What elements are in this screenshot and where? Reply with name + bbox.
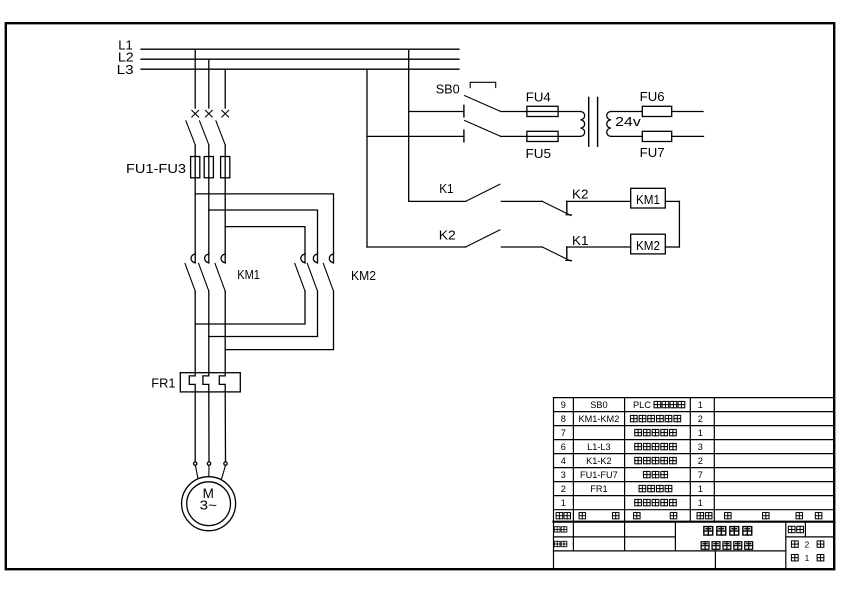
label shenhe (checked by) (554, 541, 566, 546)
transformer T primary winding (581, 112, 585, 137)
pushbutton SB0 contact 2 (367, 121, 527, 142)
parts row 8 texts (561, 414, 703, 424)
svg-text:FU7: FU7 (640, 145, 665, 160)
label K1 row1 (439, 182, 453, 196)
contactor KM2 pole 2 (307, 253, 317, 291)
svg-text:1: 1 (805, 553, 810, 563)
parts row 3 texts (561, 484, 703, 494)
parts row 9 texts (561, 400, 703, 410)
svg-text:L1-L3: L1-L3 (587, 442, 611, 452)
svg-text:9: 9 (561, 400, 566, 410)
parts row 4 texts (561, 470, 703, 480)
label K2 row2 (439, 229, 456, 243)
motor M inner circle (187, 482, 231, 526)
wire KM1 pole outputs (195, 291, 225, 373)
svg-text:2: 2 (561, 484, 566, 494)
svg-text:2: 2 (698, 456, 703, 466)
label zhitu (drafted by) (554, 527, 566, 532)
label L3 (117, 62, 134, 77)
bus L2 (141, 58, 459, 60)
label 3~ (200, 498, 218, 513)
fuse FU4 (527, 106, 581, 116)
title text line 2 (electrical schematic) (701, 542, 752, 550)
contactor coil KM1 (631, 188, 666, 208)
label FU6 (640, 89, 665, 104)
contactor KM2 pole 3 (323, 253, 333, 291)
svg-text:FU1-FU3: FU1-FU3 (126, 161, 186, 176)
label FU1-FU3 (126, 161, 186, 176)
wire KM2 output 2 (209, 291, 318, 337)
fuse FU5 (527, 131, 581, 141)
FR1 heater element 2 (203, 373, 209, 392)
fuse FU7 (611, 131, 704, 141)
wire control feed from L3 (366, 69, 368, 247)
label SB0 (436, 81, 460, 96)
motor M outer circle (182, 477, 236, 531)
svg-text:K2: K2 (439, 229, 456, 243)
wire control feed from L1 (408, 49, 410, 201)
switch QS pole 2 (200, 110, 213, 156)
svg-text:L3: L3 (117, 62, 134, 77)
svg-text:FU5: FU5 (526, 146, 552, 161)
label FR1 (151, 376, 175, 391)
wire L3 drop (224, 69, 226, 108)
contactor coil KM2 (631, 234, 666, 254)
label L1 (118, 38, 133, 53)
svg-text:K1: K1 (572, 234, 588, 248)
fuse FU2 (204, 157, 213, 178)
fuse FU6 (611, 106, 703, 116)
svg-text:FU6: FU6 (640, 89, 665, 104)
relay contact K1 NO (409, 184, 500, 201)
svg-text:K1-K2: K1-K2 (586, 456, 612, 466)
table header texts (556, 513, 822, 519)
svg-text:2: 2 (805, 540, 810, 550)
svg-text:FU4: FU4 (526, 90, 551, 105)
contactor KM1 pole 3 (215, 253, 225, 291)
svg-text:K2: K2 (572, 188, 588, 202)
title area cell lines (554, 522, 835, 569)
relay contact K2 NO (367, 230, 500, 247)
contactor KM1 pole 1 (185, 253, 195, 291)
svg-text:3~: 3~ (200, 498, 218, 513)
label K1 row2 (572, 234, 588, 248)
relay contact K1 NC (542, 247, 630, 261)
wire branch L2 to KM2 (209, 210, 318, 253)
svg-text:K1: K1 (439, 182, 453, 196)
wire phase A to KM1 (194, 178, 196, 253)
wire KM2 output 3 (225, 291, 333, 350)
svg-text:KM1: KM1 (636, 192, 660, 207)
fuse FU1 (191, 157, 200, 178)
transformer T core (589, 97, 598, 146)
svg-text:FR1: FR1 (151, 376, 175, 391)
wire branch L1 to KM2 (195, 194, 333, 253)
pushbutton SB0 linkage bracket (470, 82, 496, 87)
parts row 7 texts (561, 428, 703, 438)
wire L2 drop (208, 59, 210, 108)
svg-text:4: 4 (561, 456, 566, 466)
transformer T secondary winding (607, 112, 611, 137)
contactor KM1 pole 2 (199, 253, 209, 291)
svg-text:1: 1 (698, 484, 703, 494)
wire FR1 to motor 3 (222, 392, 228, 479)
parts table row lines (554, 412, 835, 510)
switch QS pole 3 (216, 110, 229, 156)
label 24v (615, 114, 641, 129)
label M (203, 486, 214, 501)
pushbutton SB0 contact 1 (409, 96, 527, 117)
svg-text:SB0: SB0 (436, 81, 460, 96)
label bili (scale) (788, 526, 803, 532)
parts row 4 texts (561, 456, 703, 466)
wire FR1 to motor 2 (207, 392, 210, 477)
parts table outline (554, 398, 835, 569)
svg-text:24v: 24v (615, 114, 641, 129)
label FU4 (526, 90, 551, 105)
svg-text:1: 1 (698, 428, 703, 438)
svg-text:7: 7 (561, 428, 566, 438)
FR1 heater element 3 (219, 373, 225, 392)
label di 1 zhang (sheet 1) (791, 553, 823, 563)
svg-text:SB0: SB0 (590, 400, 607, 410)
relay contact K2 NC (542, 201, 630, 215)
svg-text:FR1: FR1 (590, 484, 607, 494)
wire coil link (678, 201, 680, 247)
parts row 1 texts (561, 498, 703, 508)
wire KM1 coil out (665, 200, 679, 202)
svg-text:KM2: KM2 (351, 268, 376, 283)
svg-text:FU1-FU7: FU1-FU7 (580, 470, 618, 480)
svg-text:KM1: KM1 (237, 267, 260, 282)
wire row1 mid (501, 200, 542, 202)
fuse FU3 (221, 157, 230, 178)
svg-text:6: 6 (561, 442, 566, 452)
bus L3 (141, 68, 459, 70)
bus L1 (141, 48, 459, 50)
switch QS pole 1 (186, 110, 199, 156)
FR1 heater element 1 (189, 373, 195, 392)
svg-text:3: 3 (698, 442, 703, 452)
label gong 2 zhang (2 sheets total) (791, 540, 823, 550)
svg-text:2: 2 (698, 414, 703, 424)
wire KM2 output 1 (195, 291, 305, 324)
svg-text:8: 8 (561, 414, 566, 424)
svg-text:1: 1 (698, 498, 703, 508)
label FU5 (526, 146, 552, 161)
thermal relay FR1 box (180, 373, 240, 392)
wire FR1 to motor 1 (194, 392, 198, 478)
wire L1 drop (194, 49, 196, 108)
wire row2 mid (501, 246, 542, 248)
svg-text:KM1-KM2: KM1-KM2 (578, 414, 619, 424)
title text line 1 (async motor) (704, 527, 752, 535)
svg-text:3: 3 (561, 470, 566, 480)
label KM1 (237, 267, 260, 282)
svg-text:PLC: PLC (633, 400, 651, 410)
contactor KM2 pole 1 (295, 253, 305, 291)
wire branch L3 to KM2 (225, 227, 305, 253)
title block thick separator (554, 521, 835, 523)
label KM2 (351, 268, 376, 283)
label K2 row1 (572, 188, 588, 202)
parts row 6 texts (561, 442, 703, 452)
svg-text:KM2: KM2 (636, 238, 660, 253)
label FU7 (640, 145, 665, 160)
parts table column lines (573, 398, 714, 522)
svg-text:1: 1 (561, 498, 566, 508)
label L2 (118, 50, 134, 65)
wire phase C to KM1 (224, 178, 226, 253)
wire phase B to KM1 (208, 178, 210, 253)
wire KM2 coil out (665, 246, 679, 248)
svg-text:7: 7 (698, 470, 703, 480)
svg-text:1: 1 (698, 400, 703, 410)
